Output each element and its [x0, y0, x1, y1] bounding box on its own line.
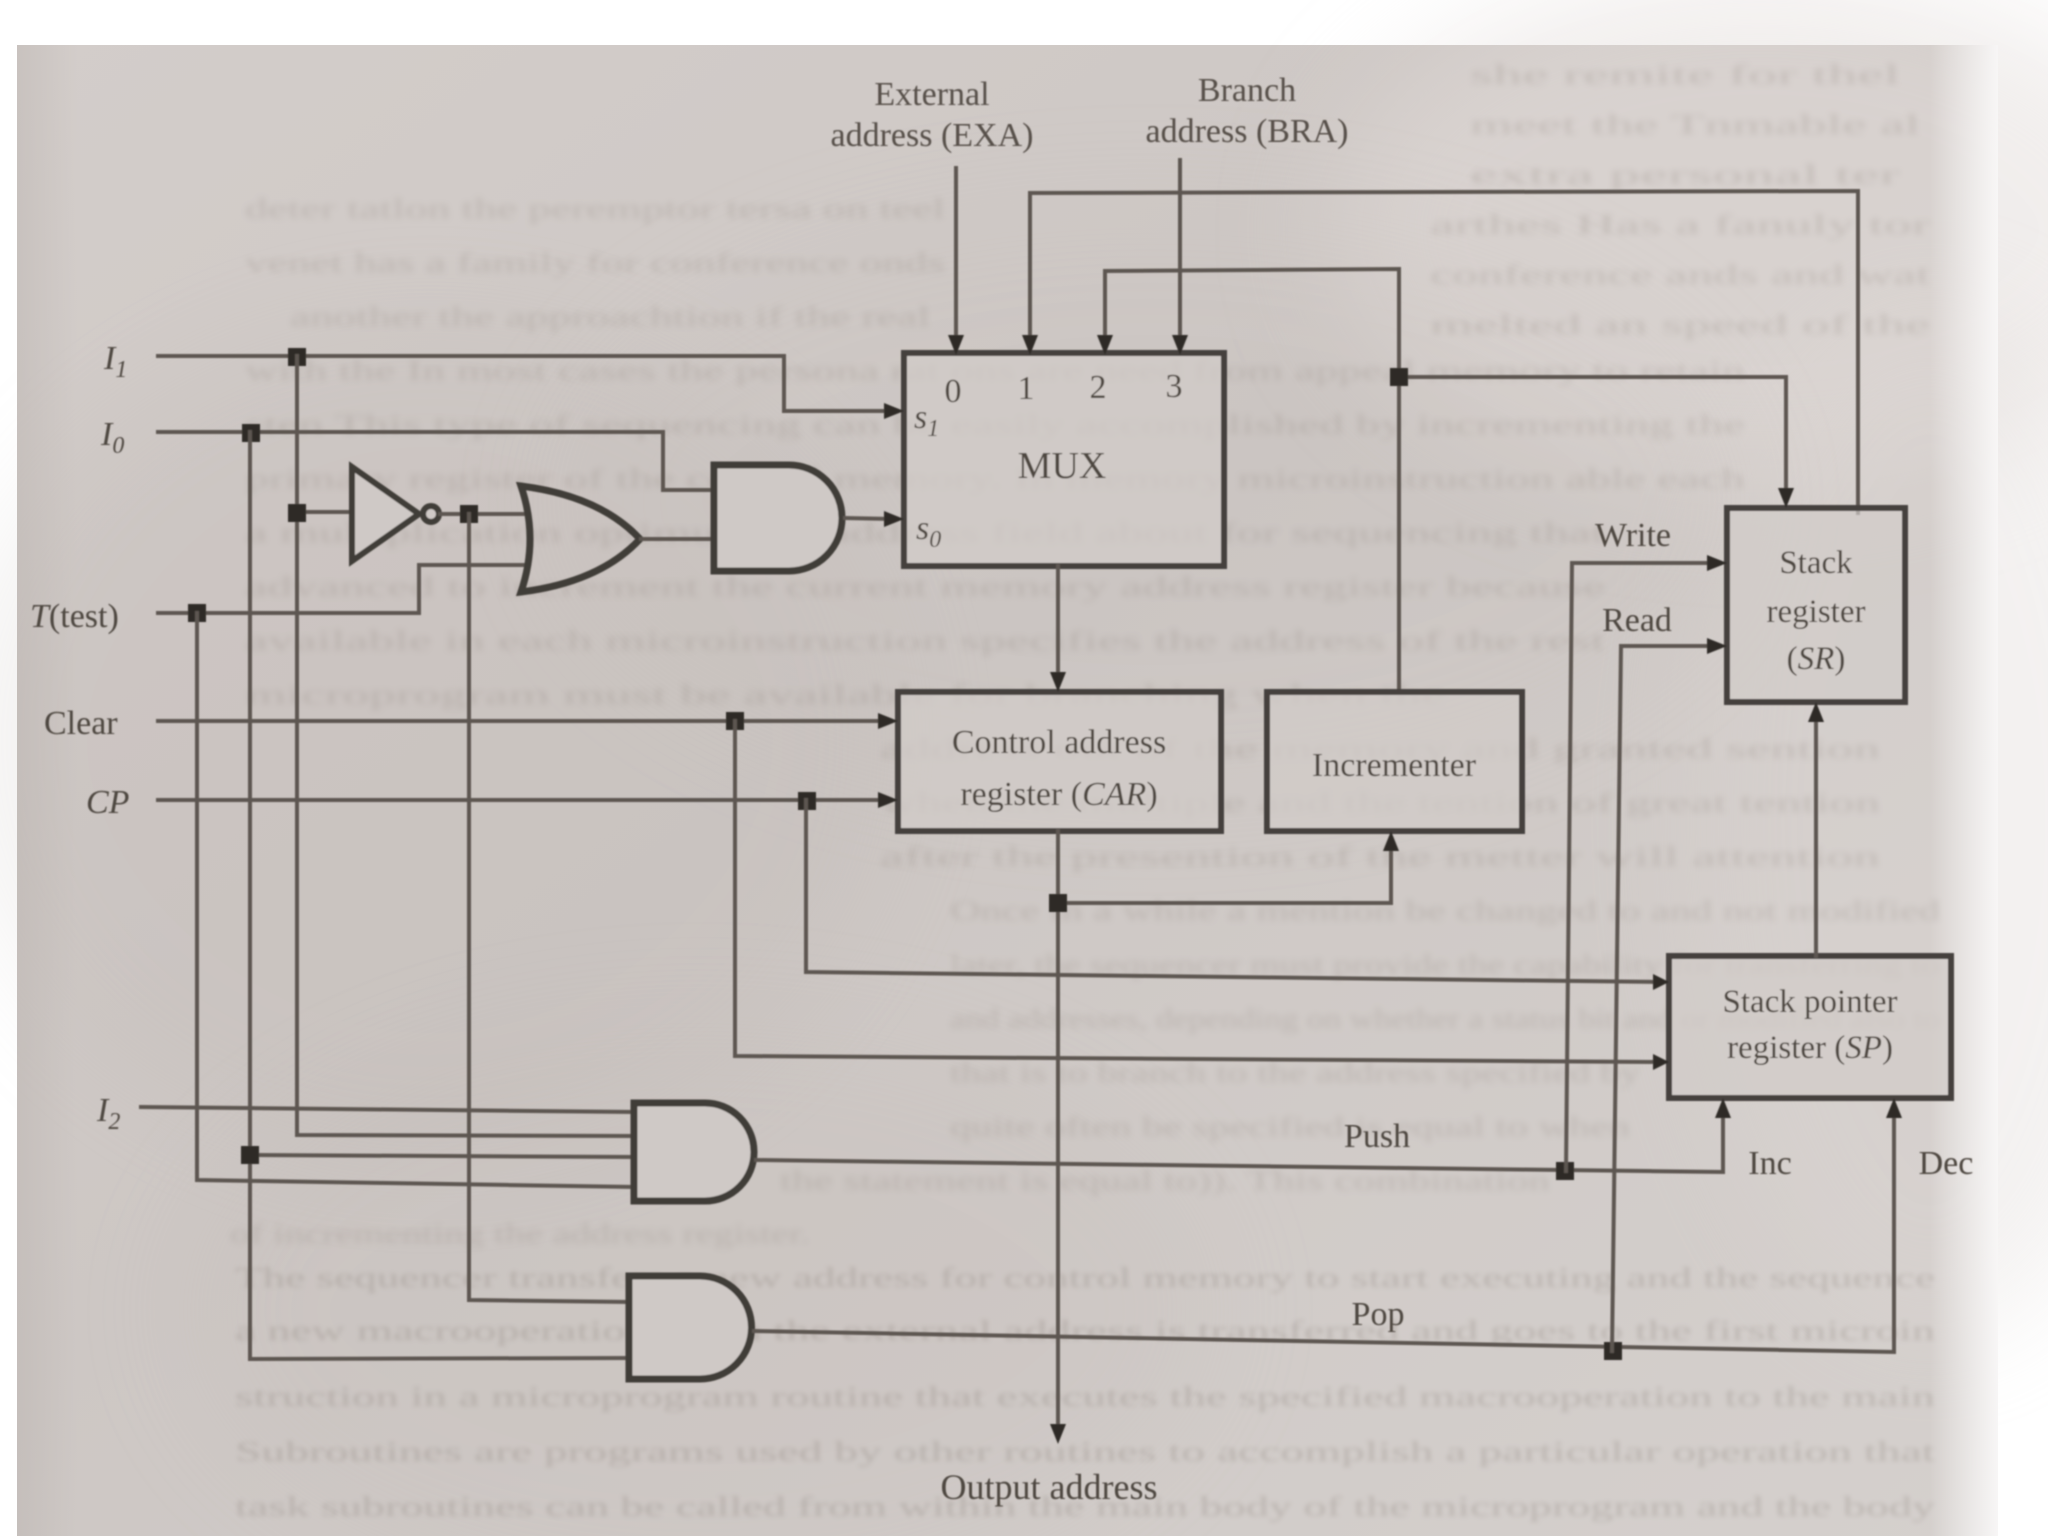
svg-text:Output address: Output address	[941, 1467, 1158, 1507]
page edge shading	[0, 0, 1, 1]
svg-text:another the approachtion if th: another the approachtion if the real	[290, 301, 930, 333]
and-gate U3 (selects s0)	[714, 465, 842, 571]
wire Read rail to SR	[1612, 646, 1715, 1351]
junction Pop to Read rail	[1604, 1342, 1622, 1360]
incrementer	[1267, 692, 1522, 831]
svg-text:Stack: Stack	[1779, 545, 1853, 581]
arrow I1 into MUX s1	[884, 403, 904, 419]
svg-text:Branch: Branch	[1198, 72, 1296, 109]
svg-text:T(test): T(test)	[30, 598, 119, 635]
svg-text:after the presention of the me: after the presention of the metter will …	[880, 841, 1881, 873]
junction Clear rail tap	[726, 712, 744, 730]
and-gate U5 (Pop)	[629, 1276, 752, 1379]
wire T input to OR gate	[158, 565, 528, 613]
arrow Dec into SP bottom	[1886, 1098, 1902, 1118]
arrow Clear into CAR	[878, 713, 898, 729]
svg-text:she remite for thel: she remite for thel	[1470, 59, 1900, 91]
wire AND output to MUX s0	[845, 518, 892, 519]
junction Incrementer output branch	[1390, 368, 1408, 386]
svg-text:CP: CP	[86, 784, 129, 821]
junction Push to Write rail	[1556, 1162, 1574, 1180]
svg-text:The sequencer transfers a new: The sequencer transfers a new address fo…	[235, 1262, 1935, 1294]
arrow AND into MUX s0	[884, 511, 904, 527]
control address register CAR	[898, 692, 1221, 831]
wire Write rail to SR	[1566, 563, 1715, 1171]
wire MUX output to CAR	[1056, 566, 1060, 678]
junction T rail tap	[188, 604, 206, 622]
svg-text:register: register	[1767, 594, 1866, 630]
wire CP rail to SP	[806, 800, 1661, 982]
arrow CP into SP	[1653, 974, 1669, 990]
arrow loop1 into MUX input 1	[1022, 335, 1038, 355]
svg-text:arthes Has a fanuly tor: arthes Has a fanuly tor	[1430, 209, 1931, 241]
arrowheads	[878, 335, 1902, 1444]
svg-text:Stack pointer: Stack pointer	[1722, 984, 1897, 1020]
wire I1 input to MUX s1	[158, 356, 892, 411]
svg-text:MUX: MUX	[1018, 445, 1107, 487]
svg-text:Push: Push	[1344, 1118, 1410, 1155]
junction CAR output branch	[1049, 894, 1067, 912]
svg-text:Pop: Pop	[1352, 1296, 1405, 1333]
junction I0 rail tap	[242, 424, 260, 442]
and-gate U4 (Push)	[634, 1103, 754, 1201]
arrow into incrementer bottom	[1383, 831, 1399, 851]
mux U1	[904, 353, 1224, 566]
arrow MUX output into CAR	[1050, 672, 1066, 692]
faint show-through body text	[230, 59, 1941, 1250]
wire Incrementer output to MUX input 2	[1105, 269, 1399, 692]
or-gate U2	[521, 486, 640, 592]
wire I0 rail down to pop AND gate	[250, 432, 629, 1359]
svg-text:register (CAR): register (CAR)	[960, 776, 1157, 813]
wire inverter output rail down to pop AND gate	[469, 514, 629, 1302]
svg-text:Control address: Control address	[952, 724, 1166, 761]
svg-text:conference ands and wat: conference ands and wat	[1430, 259, 1930, 291]
wire Clear rail to SP	[735, 721, 1661, 1062]
arrow Write into SR	[1707, 555, 1727, 571]
svg-text:1: 1	[1018, 370, 1035, 407]
svg-text:meet the Tnmable al: meet the Tnmable al	[1470, 109, 1920, 141]
svg-text:of incrementing the address re: of incrementing the address register.	[230, 1218, 810, 1250]
wire inverter output to OR gate	[440, 512, 528, 516]
svg-text:Subroutines are programs used: Subroutines are programs used by other r…	[235, 1436, 1935, 1468]
arrow BRA into MUX input 3	[1172, 335, 1188, 355]
wire CAR output branch to incrementer	[1058, 845, 1391, 903]
arrow Read into SR	[1707, 638, 1727, 654]
arrow SP output into SR bottom	[1808, 702, 1824, 722]
svg-text:address (BRA): address (BRA)	[1145, 113, 1348, 150]
wire I0 input to AND gate	[158, 432, 714, 490]
svg-text:quite often be specified is eq: quite often be specified is equal to whe…	[950, 1111, 1631, 1143]
wire BRA to MUX input 3	[1178, 160, 1182, 340]
wire I0 rail branch to push AND gate	[250, 1155, 634, 1157]
wire T rail down to push AND gate	[197, 613, 634, 1187]
node Branch address (BRA) label	[1145, 72, 1348, 150]
svg-text:3: 3	[1166, 368, 1183, 405]
svg-text:address (EXA): address (EXA)	[831, 117, 1034, 154]
junction I0 rail to push gate	[241, 1146, 259, 1164]
wire I1 rail down to push AND gate	[297, 356, 634, 1136]
svg-text:External: External	[874, 76, 989, 113]
svg-text:struction in a microprogram ro: struction in a microprogram routine that…	[235, 1381, 1936, 1413]
wire CP input to CAR	[158, 798, 886, 802]
stack pointer register SP	[1669, 956, 1951, 1098]
arrow output address down	[1050, 1424, 1066, 1444]
svg-text:extra personal ter: extra personal ter	[1470, 159, 1901, 191]
junction CP rail tap	[798, 792, 816, 810]
arrow Clear into SP	[1653, 1054, 1669, 1070]
wire SR output loop to MUX input 1	[1030, 191, 1858, 513]
stack register SR	[1727, 508, 1905, 702]
wire OR output to AND gate	[641, 537, 714, 541]
svg-text:0: 0	[945, 373, 962, 410]
arrow CP into CAR	[878, 792, 898, 808]
wire Incrementer output branch to SR input	[1399, 377, 1786, 496]
inverter gate (NOT)	[352, 467, 439, 561]
wire I2 input to push AND gate	[141, 1107, 634, 1112]
svg-text:Write: Write	[1595, 517, 1671, 554]
svg-text:Once in a while a mention be c: Once in a while a mention be changed to …	[950, 895, 1941, 927]
junction inverter output rail tap	[460, 505, 478, 523]
junction I1 rail tap	[288, 348, 306, 366]
wire CAR output to output address	[1056, 831, 1060, 1430]
svg-text:venet has a family for confere: venet has a family for conference onds	[245, 247, 945, 279]
wire Pop rail to SP Dec input	[754, 1112, 1894, 1352]
svg-text:Inc: Inc	[1748, 1145, 1791, 1182]
svg-text:Read: Read	[1602, 602, 1672, 639]
svg-text:a new macrooperation when the: a new macrooperation when the external a…	[235, 1315, 1936, 1347]
arrow EXA into MUX	[948, 335, 964, 355]
node External address (EXA) label	[831, 76, 1034, 154]
arrow loop2 into MUX input 2	[1097, 335, 1113, 355]
svg-text:Incrementer: Incrementer	[1312, 747, 1477, 784]
svg-text:(SR): (SR)	[1787, 641, 1846, 677]
svg-text:Clear: Clear	[44, 705, 118, 742]
wire Clear input to CAR	[158, 719, 886, 723]
junction inverter input on I1 rail	[288, 504, 306, 522]
svg-text:deter tatlon the peremptor ter: deter tatlon the peremptor tersa on teel	[245, 193, 945, 225]
svg-text:2: 2	[1090, 369, 1107, 406]
wire EXA to MUX input 0	[954, 168, 958, 340]
wire SP output to SR address input	[1814, 716, 1818, 956]
arrow incrementer branch into SR top	[1778, 488, 1794, 508]
svg-text:register (SP): register (SP)	[1727, 1030, 1893, 1066]
wire inverter input tap	[297, 510, 352, 514]
svg-text:melted an speed of the: melted an speed of the	[1430, 309, 1930, 341]
arrow Inc into SP bottom	[1715, 1098, 1731, 1118]
svg-text:Dec: Dec	[1919, 1145, 1974, 1182]
wire Push rail to SP Inc input	[756, 1112, 1723, 1172]
